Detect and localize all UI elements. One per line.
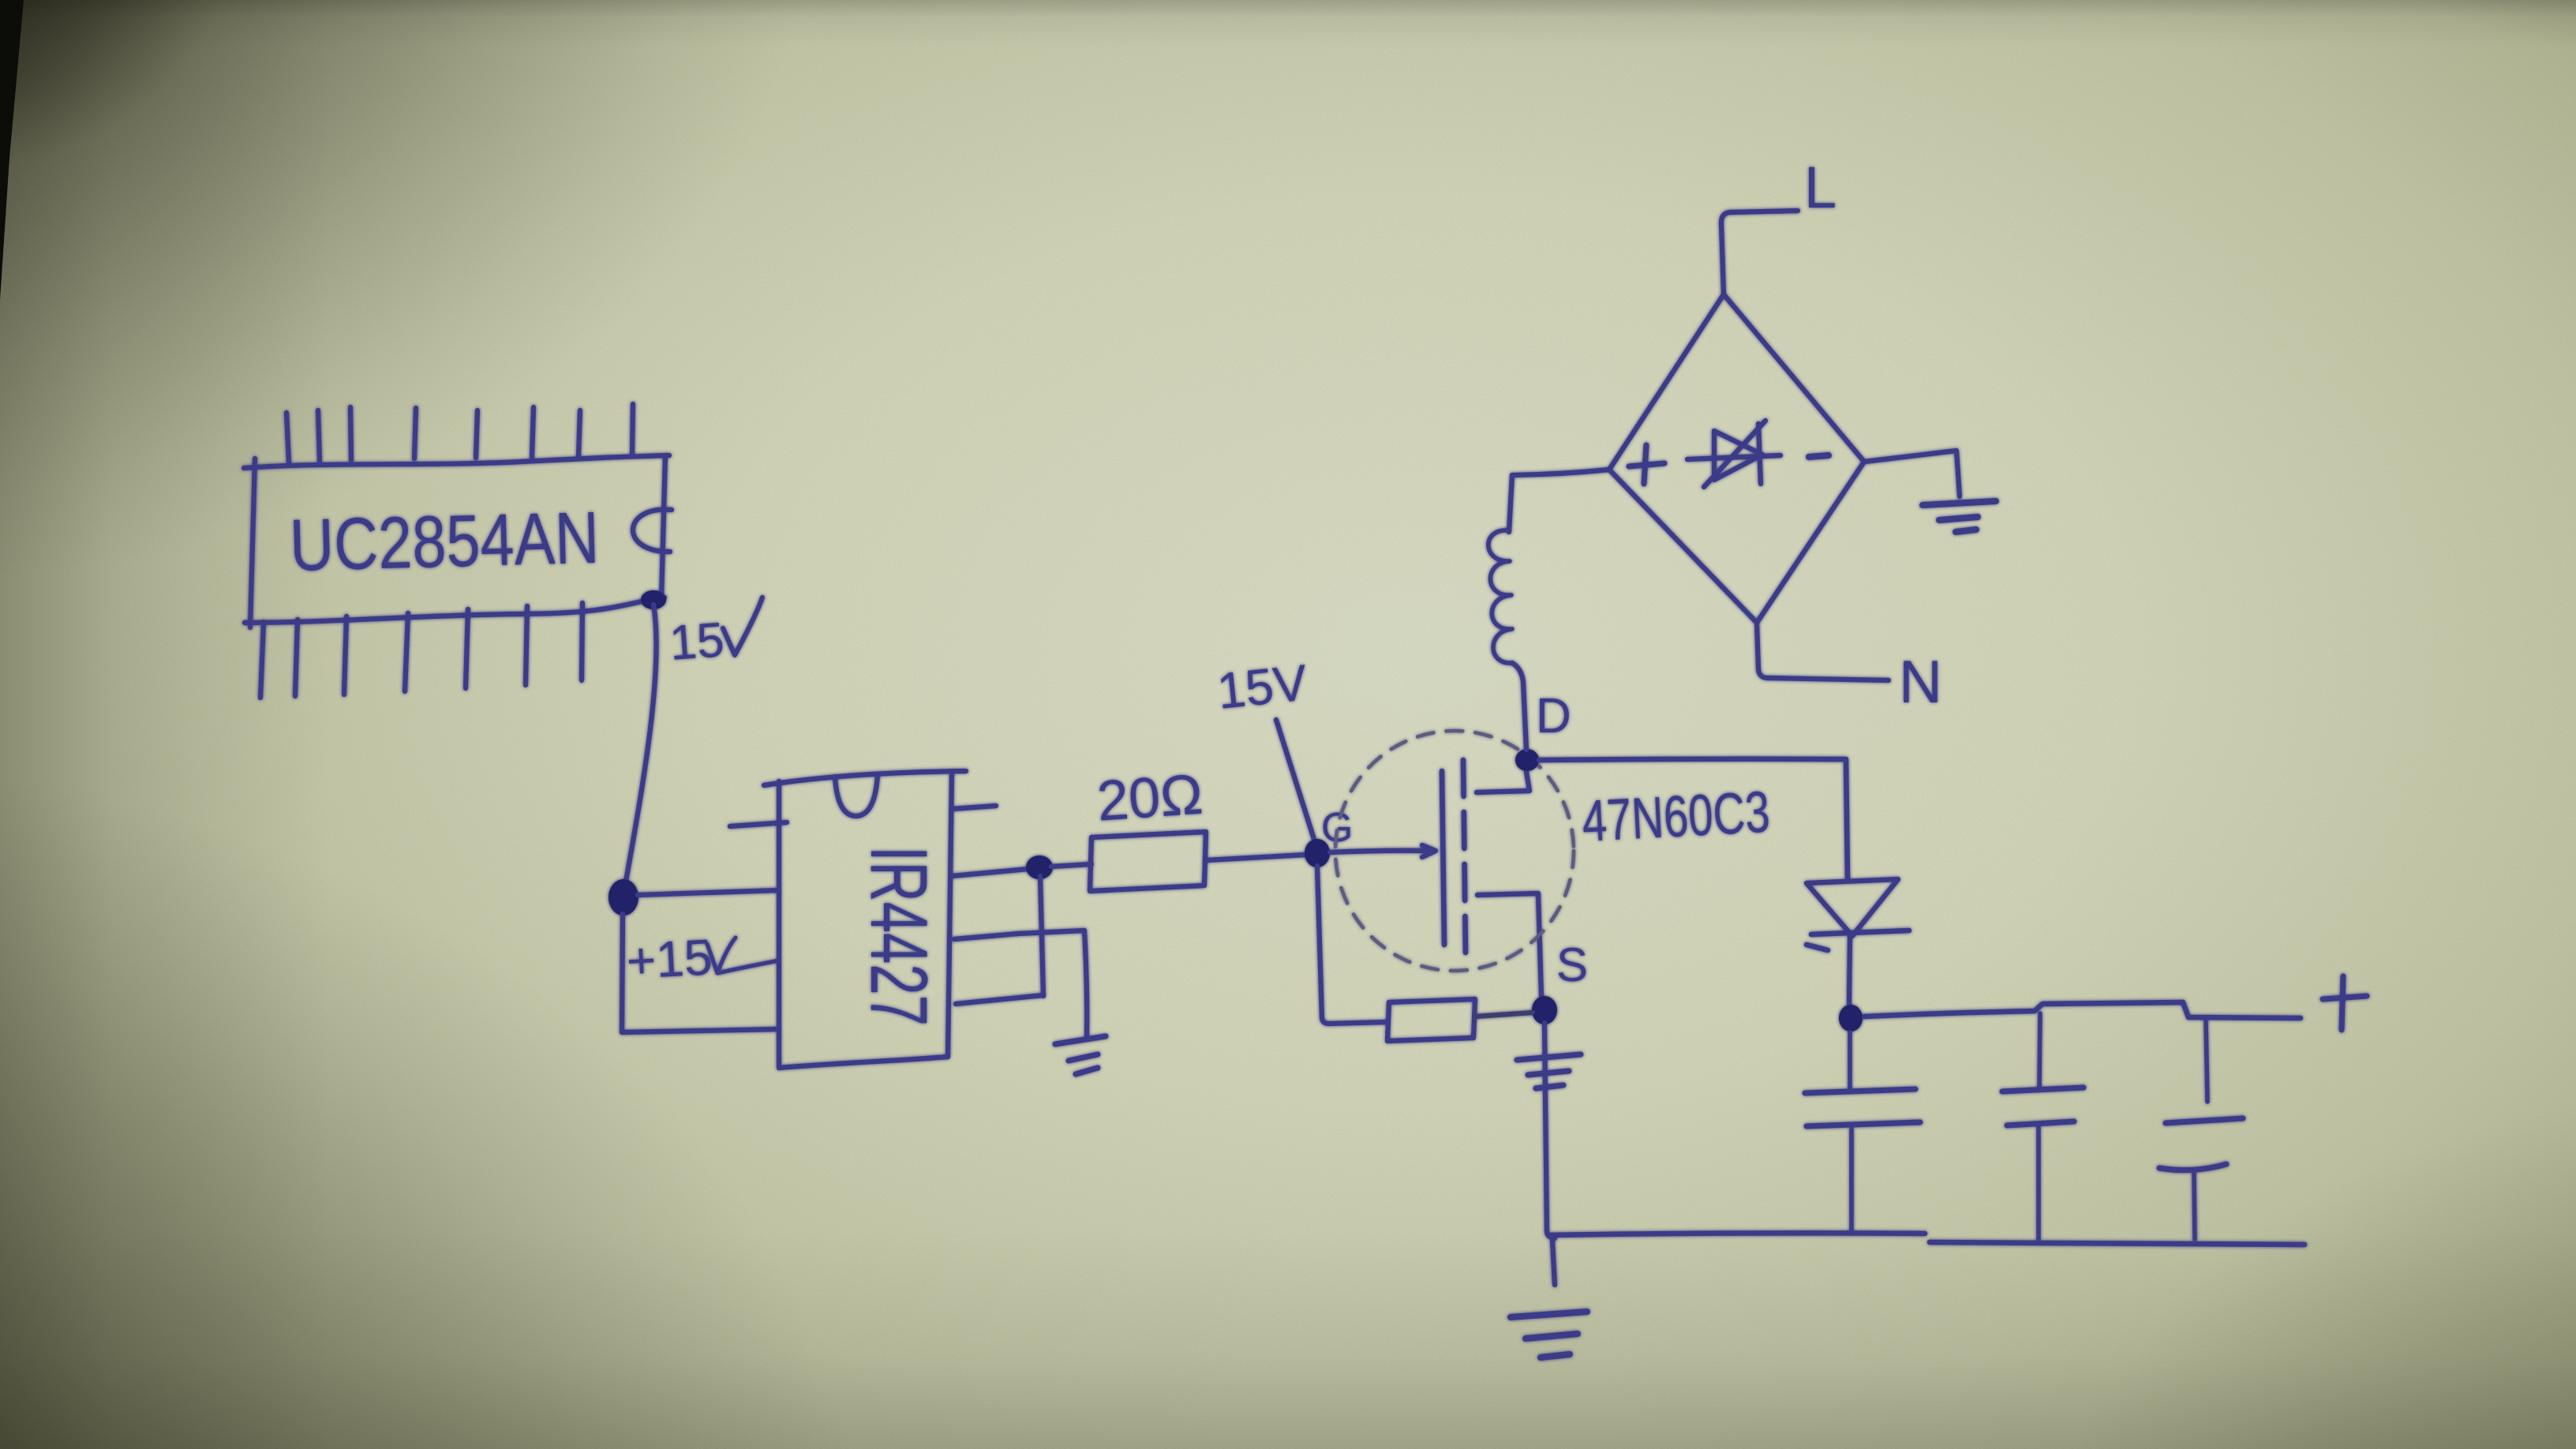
terminal L wire xyxy=(1721,211,1798,294)
BR1 label - xyxy=(1809,455,1829,457)
wire R1 to node G xyxy=(1206,855,1306,860)
svg-text:S: S xyxy=(1556,938,1588,991)
Q1 drain stub xyxy=(1477,772,1529,792)
svg-text:20Ω: 20Ω xyxy=(1095,763,1204,833)
Q1 package dashed circle xyxy=(1335,731,1574,971)
wire G to gate with arrowhead xyxy=(1330,845,1436,857)
U1 top pins xyxy=(286,404,633,462)
wire to R2 left xyxy=(1329,1022,1387,1024)
wire node D to diode D1 xyxy=(1539,759,1848,878)
svg-text:D: D xyxy=(1536,689,1571,743)
U1 bottom pins xyxy=(260,603,582,698)
svg-text:N: N xyxy=(1899,649,1942,716)
wire OUTA-OUTB tie vertical xyxy=(1040,876,1043,996)
capacitor C1 xyxy=(1805,1032,1920,1234)
inductor L1 wire from bridge xyxy=(1509,470,1609,532)
svg-text:15V: 15V xyxy=(1215,653,1310,720)
Q1 channel dashed bar xyxy=(1463,760,1466,953)
wire U2 GND to ground xyxy=(954,930,1084,939)
wire 15V diagonal to node G xyxy=(1276,720,1317,849)
resistor R1 box xyxy=(1090,832,1206,891)
IC U2 IR4427 body xyxy=(764,771,966,1068)
svg-text:L: L xyxy=(1804,155,1837,220)
ground G1 xyxy=(1923,501,1996,532)
output plus rail xyxy=(1864,1002,2301,1018)
node D dot xyxy=(1515,749,1539,771)
terminal N wire xyxy=(1757,623,1889,680)
paper edge dark sliver top-left xyxy=(0,0,24,300)
wire GND down xyxy=(1084,930,1087,1036)
wire U2 OUTA to node J2 xyxy=(952,869,1028,876)
BR1 label + xyxy=(1629,445,1664,484)
capacitor C2 xyxy=(2002,1013,2084,1239)
wire R2 right to node S xyxy=(1475,1013,1533,1017)
wire J1 to U2 pin VCC xyxy=(638,890,779,895)
IC U1 UC2854AN body xyxy=(244,455,672,627)
transistor Q1 gate bar xyxy=(1442,771,1444,945)
label + output xyxy=(2323,976,2367,1030)
capacitor C3 xyxy=(2159,1020,2243,1239)
svg-text:IR4427: IR4427 xyxy=(854,846,944,1026)
node S dot xyxy=(1532,996,1557,1024)
svg-text:15: 15 xyxy=(668,612,726,671)
U2 right pin stub xyxy=(952,806,996,809)
label +15V handwritten V with swoosh xyxy=(707,938,779,973)
resistor R2 box xyxy=(1387,999,1475,1041)
BR1 internal diode xyxy=(1687,421,1780,487)
mid-wire ground G3 xyxy=(1517,1054,1581,1088)
wire left branch to U2 pin4 xyxy=(622,1029,779,1032)
diode D1 cathode bar xyxy=(1807,930,1909,950)
svg-text:+15: +15 xyxy=(625,928,713,990)
wire BR1 minus to ground xyxy=(1864,451,1960,496)
wire source S down xyxy=(1544,1023,1555,1238)
wire U2 OUTB xyxy=(956,995,1043,1004)
node J2 junction dot xyxy=(1026,856,1053,879)
ground G2 xyxy=(1055,1036,1106,1074)
wire G node down to R2 xyxy=(1317,866,1329,1024)
node J3 junction dot xyxy=(1839,1005,1863,1032)
node G junction dot xyxy=(1305,839,1330,867)
ground G4 xyxy=(1511,1312,1587,1357)
node U1 VCC pin dot xyxy=(641,590,666,609)
node J1 junction dot xyxy=(608,879,638,915)
bottom rail xyxy=(1549,1233,2305,1245)
U2 left pin stub xyxy=(730,822,787,826)
svg-text:UC2854AN: UC2854AN xyxy=(289,496,601,586)
wire J1 down left branch xyxy=(622,914,623,1032)
bridge rectifier BR1 diamond xyxy=(1609,294,1864,623)
wire J2 to resistor R1 xyxy=(1051,864,1091,867)
diode D1 triangle xyxy=(1807,879,1898,936)
wire D1 to node J3 xyxy=(1849,936,1850,1004)
inductor L1 coil xyxy=(1488,530,1512,663)
Q1 source stub xyxy=(1477,893,1541,996)
wire L1 to node D xyxy=(1512,663,1526,750)
wire stub to ground G4 xyxy=(1552,1241,1555,1285)
wire U1 VCC down to node J1 xyxy=(624,605,657,890)
label 15V check V xyxy=(723,597,762,655)
svg-text:47N60C3: 47N60C3 xyxy=(1580,779,1771,854)
